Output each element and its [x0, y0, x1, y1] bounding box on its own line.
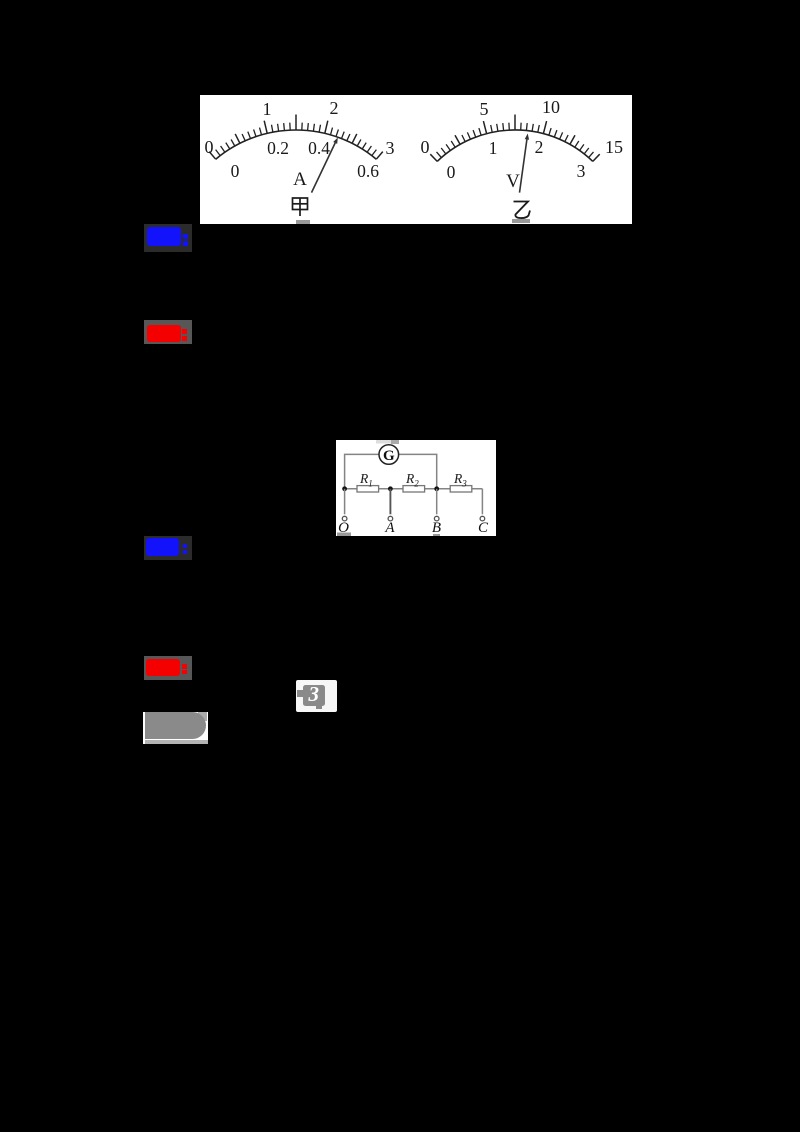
analysis label 2 (red 解析: blob)	[144, 320, 192, 344]
svg-text:G: G	[383, 448, 395, 464]
node B junction	[434, 486, 439, 491]
ammeter needle	[312, 143, 336, 193]
terminal wire O	[344, 489, 346, 515]
svg-text:0: 0	[421, 137, 430, 157]
svg-text:5: 5	[480, 99, 489, 119]
gray pill shape (cropped label)	[143, 712, 207, 744]
answer label 1 (blue 答案: blob)	[144, 224, 192, 252]
ammeter tick marks	[209, 152, 216, 160]
terminal circle B	[434, 516, 439, 521]
node at left end	[342, 486, 347, 491]
svg-text:1: 1	[489, 138, 498, 158]
analysis label 4 (red blob)	[144, 656, 192, 680]
terminal circle C	[480, 516, 485, 521]
ammeter caption 甲 (drawn)	[293, 198, 308, 216]
gray artifact marks at top edge	[376, 440, 391, 444]
svg-text:10: 10	[542, 97, 560, 117]
node A junction	[388, 486, 393, 491]
voltmeter caption 乙 (drawn)	[514, 202, 531, 219]
terminal wire C	[481, 489, 483, 515]
resistor R2	[403, 486, 425, 492]
svg-text:R2: R2	[405, 471, 419, 489]
svg-text:0: 0	[447, 162, 456, 182]
terminal wire A	[389, 489, 391, 515]
galvanometer U G	[379, 445, 399, 465]
svg-text:1: 1	[263, 99, 272, 119]
svg-text:V: V	[506, 171, 520, 192]
svg-text:2: 2	[535, 137, 544, 157]
answer label 3 (blue blob)	[144, 536, 192, 560]
svg-text:A: A	[293, 169, 307, 190]
svg-text:C: C	[478, 520, 489, 536]
gray artifact strip under 乙	[512, 219, 530, 223]
terminal circle O	[342, 516, 347, 521]
wire: left node up to G	[345, 454, 379, 488]
svg-text:3: 3	[386, 138, 395, 158]
svg-text:B: B	[432, 520, 441, 536]
svg-text:0.6: 0.6	[357, 161, 379, 181]
svg-text:0.4: 0.4	[308, 138, 330, 158]
svg-text:15: 15	[605, 137, 623, 157]
meter panel (white box with scales 甲 and 乙)	[200, 95, 632, 224]
circuit panel (white box with G, R1 R2 R3, terminals O A B C)	[336, 440, 496, 536]
voltmeter scale arc	[437, 130, 593, 161]
ammeter scale arc	[216, 130, 377, 159]
wire: G to node B	[399, 454, 437, 488]
svg-text:0: 0	[205, 137, 214, 157]
svg-text:0.2: 0.2	[267, 138, 289, 158]
voltmeter needle	[520, 139, 527, 192]
svg-text:3: 3	[577, 161, 586, 181]
terminal wire B	[436, 489, 438, 515]
gray artifact marks at bottom edge	[337, 533, 351, 537]
gray artifact strip under 甲	[296, 220, 310, 224]
svg-text:R1: R1	[359, 471, 373, 489]
voltmeter tick marks	[430, 154, 437, 161]
terminal circle A	[388, 516, 393, 521]
main horizontal wire	[345, 488, 483, 490]
svg-text:2: 2	[330, 98, 339, 118]
resistor R3	[450, 486, 472, 492]
svg-text:A: A	[384, 520, 395, 536]
badge with number 3	[296, 680, 337, 712]
resistor R1	[357, 486, 379, 492]
svg-text:R3: R3	[453, 471, 467, 489]
svg-text:0: 0	[231, 161, 240, 181]
